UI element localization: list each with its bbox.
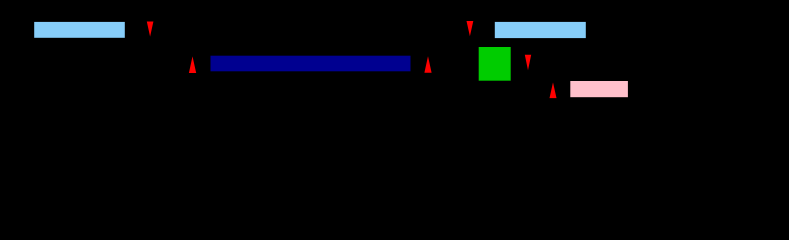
marker triangle down 3 <box>525 55 531 70</box>
marker triangle up 2 <box>424 56 431 73</box>
gene box (navy, middle row) <box>211 56 411 72</box>
pink box <box>570 81 628 97</box>
green box <box>479 47 511 81</box>
marker triangle up 3 <box>550 82 557 98</box>
exon box 2 (light blue, top-right) <box>495 22 586 38</box>
exon box 1 (light blue, top-left) <box>34 22 125 38</box>
marker triangle down 2 <box>467 21 474 36</box>
marker triangle down 1 <box>147 22 154 37</box>
marker triangle up 1 <box>189 56 196 73</box>
